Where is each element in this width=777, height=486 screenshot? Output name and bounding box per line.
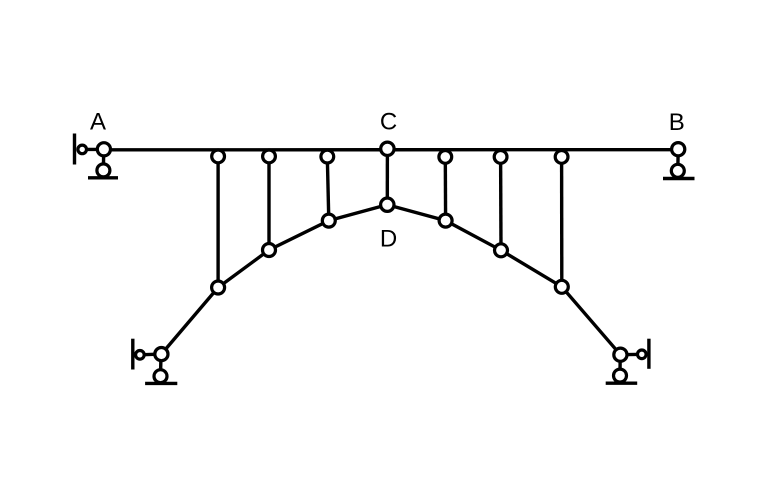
- svg-text:D: D: [380, 225, 397, 252]
- wall line at left arch support: [131, 339, 134, 370]
- hanger-top node 1: [212, 150, 225, 163]
- node C: [381, 142, 394, 155]
- arch node 5: [439, 214, 452, 227]
- arch node 7: [555, 280, 568, 293]
- hanger-top node 2: [263, 150, 276, 163]
- ground line under A: [88, 176, 118, 179]
- svg-text:B: B: [669, 109, 685, 136]
- arch node 3: [322, 214, 335, 227]
- hanger 7: [560, 157, 564, 287]
- wall line at right arch support: [647, 339, 650, 369]
- svg-text:A: A: [90, 109, 106, 136]
- hanger-top node 3: [321, 150, 334, 163]
- hanger-top node 6: [494, 151, 507, 164]
- hanger-top node 7: [555, 151, 568, 164]
- hanger 2: [267, 156, 270, 250]
- hanger C-D: [386, 149, 390, 205]
- wall roller circle at right arch support: [638, 350, 647, 359]
- hanger 1: [216, 156, 219, 287]
- ground line under B: [663, 177, 695, 180]
- ground line under left arch support: [145, 382, 177, 385]
- lower roller circle under B: [671, 164, 684, 177]
- link node B to lower roller: [676, 149, 680, 171]
- node B: [672, 143, 685, 156]
- wall roller circle at left arch support: [136, 351, 145, 360]
- right arch support node: [614, 348, 627, 361]
- arch polyline: [161, 205, 620, 355]
- node A: [97, 143, 110, 156]
- hanger 5: [444, 157, 448, 221]
- lower roller circle under left arch support: [154, 370, 167, 383]
- lower roller circle under right arch support: [614, 369, 627, 382]
- arch node 1: [212, 281, 225, 294]
- left arch support node: [155, 348, 168, 361]
- node D: [381, 198, 394, 211]
- link wall-roller to right arch node: [620, 353, 641, 357]
- link wall-roller to left arch node: [140, 352, 162, 356]
- beam AB: [104, 148, 678, 152]
- svg-text:C: C: [380, 109, 397, 136]
- wall roller circle at A: [78, 145, 87, 154]
- lower roller circle under A: [97, 164, 110, 177]
- hanger 3: [327, 157, 329, 221]
- hanger 6: [499, 157, 503, 250]
- arch node 6: [495, 244, 508, 257]
- hanger-top node 5: [439, 151, 452, 164]
- link wall-roller to node A: [82, 148, 104, 151]
- link left arch node to lower roller: [159, 354, 163, 376]
- ground line under right arch support: [606, 382, 638, 385]
- arch node 2: [263, 244, 276, 257]
- link node A to lower roller: [102, 149, 106, 170]
- link right arch node to lower roller: [618, 355, 622, 376]
- wall line at support A: [73, 134, 76, 165]
